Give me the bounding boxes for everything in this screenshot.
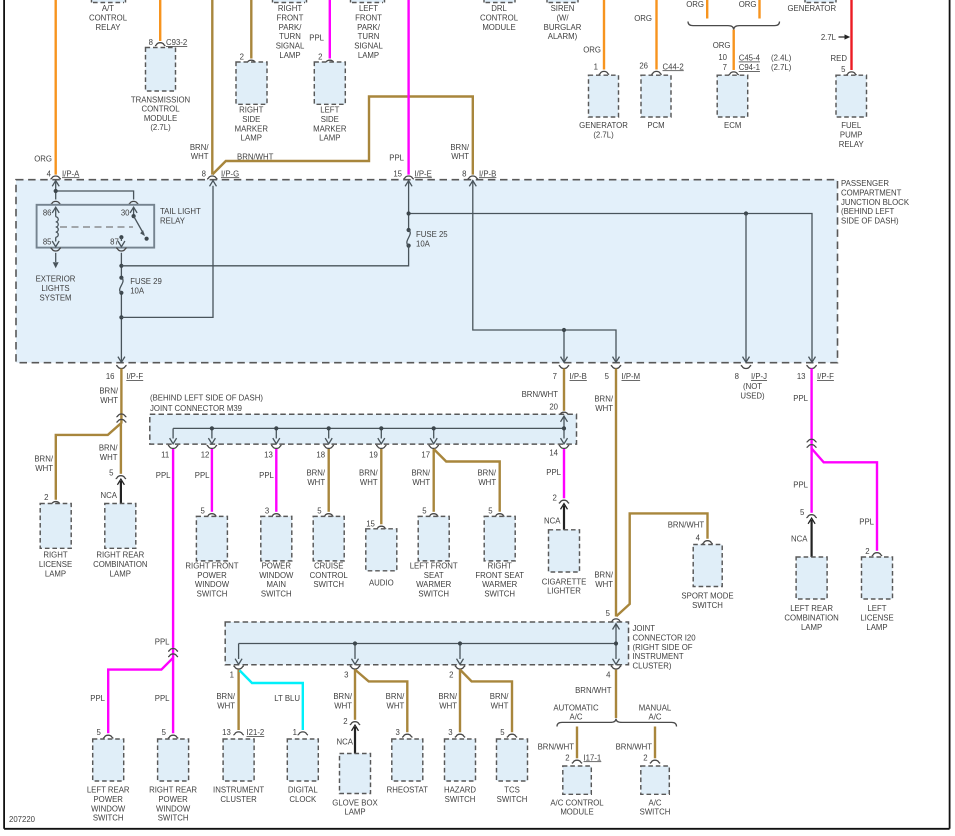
M39 internal bus bbox=[170, 416, 568, 444]
label SPORT MODE SWITCH bbox=[681, 592, 733, 610]
svg-text:WHT: WHT bbox=[451, 152, 469, 161]
svg-text:7: 7 bbox=[553, 372, 557, 381]
svg-text:5: 5 bbox=[317, 506, 322, 515]
svg-text:TRANSMISSION: TRANSMISSION bbox=[131, 95, 190, 104]
svg-text:4: 4 bbox=[606, 671, 611, 680]
svg-text:FRONT SEAT: FRONT SEAT bbox=[475, 571, 524, 580]
wire ORG to TCM C93-2 bbox=[159, 0, 161, 41]
svg-text:RELAY: RELAY bbox=[96, 23, 122, 32]
svg-text:SWITCH: SWITCH bbox=[93, 814, 124, 823]
svg-text:LAMP: LAMP bbox=[319, 134, 340, 143]
svg-text:JOINT CONNECTOR M39: JOINT CONNECTOR M39 bbox=[150, 404, 242, 413]
svg-text:LAMP: LAMP bbox=[241, 134, 262, 143]
svg-text:14: 14 bbox=[549, 448, 558, 457]
svg-text:(RIGHT SIDE OF: (RIGHT SIDE OF bbox=[633, 643, 693, 652]
svg-text:C93-2: C93-2 bbox=[166, 38, 187, 47]
wire BRN/WHT pin 2 branch to TCS switch bbox=[460, 670, 517, 738]
svg-text:RIGHT: RIGHT bbox=[488, 561, 512, 570]
pin 2 of right license lamp bbox=[44, 493, 61, 505]
svg-text:3: 3 bbox=[344, 671, 348, 680]
svg-text:11: 11 bbox=[161, 450, 169, 459]
label GLOVE BOX LAMP bbox=[332, 798, 378, 816]
cut-off box above A/T CONTROL RELAY bbox=[92, 0, 126, 3]
entry pin 20 of M39 bbox=[549, 403, 569, 416]
svg-text:(NOT: (NOT bbox=[743, 382, 762, 391]
svg-text:FRONT: FRONT bbox=[355, 13, 382, 22]
svg-text:I21-2: I21-2 bbox=[247, 728, 265, 737]
I20 internal bus bbox=[235, 624, 619, 665]
M39 exit pin 11 bbox=[161, 445, 178, 459]
right side marker lamp box bbox=[236, 62, 267, 104]
svg-text:BRN/: BRN/ bbox=[594, 571, 613, 580]
label RIGHT SIDE MARKER LAMP bbox=[235, 106, 269, 143]
inline connector on I/P-F wire bbox=[116, 414, 126, 422]
svg-text:MODULE: MODULE bbox=[144, 114, 177, 123]
svg-text:BRN/: BRN/ bbox=[477, 469, 496, 478]
svg-text:BRN/: BRN/ bbox=[306, 469, 325, 478]
svg-text:5: 5 bbox=[841, 65, 846, 74]
svg-text:FRONT: FRONT bbox=[277, 13, 304, 22]
svg-text:WHT: WHT bbox=[491, 701, 509, 710]
svg-text:I/P-A: I/P-A bbox=[62, 169, 80, 178]
inline connector on I/P-F 13 wire bbox=[807, 439, 817, 447]
svg-text:PPL: PPL bbox=[155, 694, 170, 703]
svg-text:A/C CONTROL: A/C CONTROL bbox=[550, 798, 604, 807]
2.7L arrow pointing at RED wire bbox=[821, 33, 850, 42]
svg-text:BRN/: BRN/ bbox=[386, 692, 405, 701]
TCS switch box bbox=[497, 739, 528, 781]
svg-text:2: 2 bbox=[565, 753, 569, 762]
wire RED to fuel pump relay bbox=[831, 0, 852, 70]
entry pin 5 of I20 bbox=[606, 609, 622, 622]
svg-text:C94-1: C94-1 bbox=[739, 63, 760, 72]
label PASSENGER COMPARTMENT JUNCTION BLOCK (BEHIND LEFT SIDE OF DASH) bbox=[841, 179, 910, 226]
label JOINT CONNECTOR I20 (RIGHT SIDE OF INSTRUMENT CLUSTER) bbox=[633, 624, 697, 671]
cut-off box above GENERATOR label bbox=[805, 0, 836, 3]
svg-text:18: 18 bbox=[316, 450, 325, 459]
svg-text:ECM: ECM bbox=[724, 121, 741, 130]
label LEFT REAR POWER WINDOW SWITCH bbox=[87, 786, 130, 823]
arrow to exterior lights system bbox=[36, 253, 76, 302]
svg-text:SWITCH: SWITCH bbox=[158, 814, 189, 823]
svg-text:CONNECTOR I20: CONNECTOR I20 bbox=[633, 633, 697, 642]
wire I/P-J branch bbox=[743, 211, 750, 362]
svg-text:POWER: POWER bbox=[158, 795, 188, 804]
brace splitting to automatic and manual A/C bbox=[557, 719, 677, 727]
svg-text:5: 5 bbox=[422, 506, 427, 515]
svg-text:ORG: ORG bbox=[686, 0, 704, 9]
svg-text:WHT: WHT bbox=[100, 453, 118, 462]
wire I/P-B to I/P-B 7 and I/P-M 5 bbox=[469, 180, 619, 362]
svg-text:5: 5 bbox=[162, 728, 167, 737]
svg-text:3: 3 bbox=[265, 506, 269, 515]
svg-text:C45-4: C45-4 bbox=[739, 54, 761, 63]
svg-text:I/P-F: I/P-F bbox=[126, 372, 143, 381]
svg-text:WHT: WHT bbox=[595, 404, 613, 413]
I20 exit pin 4 bbox=[606, 666, 621, 680]
svg-text:SIGNAL: SIGNAL bbox=[354, 42, 383, 51]
svg-text:BRN/: BRN/ bbox=[216, 692, 235, 701]
label DIGITAL CLOCK bbox=[288, 786, 318, 804]
wire fuse29 node to I/P-G bbox=[121, 181, 216, 318]
joint connector M39 box bbox=[150, 414, 577, 444]
svg-text:WHT: WHT bbox=[334, 701, 352, 710]
M39 exit pin 17 bbox=[421, 445, 438, 459]
wire BRN/WHT to right side marker lamp bbox=[250, 0, 252, 59]
label A/C CONTROL MODULE bbox=[550, 798, 604, 816]
svg-text:1: 1 bbox=[293, 728, 297, 737]
wire PPL pin 12 to right front power window switch bbox=[195, 449, 217, 517]
label MANUAL A/C bbox=[639, 704, 672, 722]
wire BRN/WHT to I/P-G bbox=[190, 0, 212, 175]
wire I/P-E to fuse 25 and right branch bbox=[405, 180, 815, 362]
label A/C SWITCH bbox=[640, 798, 671, 816]
svg-text:(2.4L): (2.4L) bbox=[771, 54, 792, 63]
svg-text:WHT: WHT bbox=[217, 701, 235, 710]
svg-text:POWER: POWER bbox=[93, 795, 123, 804]
sport mode switch box bbox=[693, 545, 722, 587]
svg-text:INSTRUMENT: INSTRUMENT bbox=[633, 652, 684, 661]
fuse 29 10A bbox=[119, 276, 162, 296]
wire BRN/WHT to A/C switch bbox=[616, 727, 661, 764]
svg-text:15: 15 bbox=[393, 169, 402, 178]
pin 5 of fuel pump relay bbox=[841, 65, 857, 75]
label POWER WINDOW MAIN SWITCH bbox=[259, 561, 294, 598]
svg-text:10A: 10A bbox=[130, 287, 145, 296]
svg-text:2: 2 bbox=[553, 493, 557, 502]
svg-text:2.7L: 2.7L bbox=[821, 33, 837, 42]
svg-text:5: 5 bbox=[606, 609, 611, 618]
wire ORG to ECM bbox=[713, 30, 734, 70]
svg-text:BRN/: BRN/ bbox=[190, 143, 209, 152]
entry 15 I/P-E bbox=[393, 169, 432, 179]
cut-off box above LEFT FRONT PARK lamp bbox=[351, 0, 385, 3]
svg-text:LEFT: LEFT bbox=[359, 4, 378, 13]
svg-text:ORG: ORG bbox=[634, 14, 652, 23]
svg-text:5: 5 bbox=[200, 506, 205, 515]
exit 8 I/P-J (NOT USED) bbox=[735, 365, 767, 400]
label AUTOMATIC A/C bbox=[553, 704, 599, 722]
svg-text:BRN/: BRN/ bbox=[99, 444, 118, 453]
label (BEHIND LEFT SIDE OF DASH) JOINT CONNECTOR M39 bbox=[150, 394, 263, 413]
svg-text:BRN/WHT: BRN/WHT bbox=[668, 521, 705, 530]
entry 8 I/P-G bbox=[202, 169, 240, 179]
label RHEOSTAT bbox=[387, 786, 429, 795]
svg-text:8: 8 bbox=[735, 372, 739, 381]
svg-text:16: 16 bbox=[106, 372, 115, 381]
wire BRN/WHT pin 2 to hazard switch bbox=[438, 670, 465, 738]
svg-text:I/P-B: I/P-B bbox=[479, 169, 496, 178]
svg-text:BRN/: BRN/ bbox=[438, 692, 457, 701]
svg-text:WHT: WHT bbox=[478, 478, 496, 487]
svg-text:10A: 10A bbox=[416, 240, 431, 249]
svg-text:MAIN: MAIN bbox=[267, 580, 287, 589]
svg-text:2: 2 bbox=[643, 753, 647, 762]
wire ORG to generator bbox=[583, 0, 604, 70]
audio box bbox=[366, 529, 397, 571]
svg-text:COMPARTMENT: COMPARTMENT bbox=[841, 188, 902, 197]
svg-text:A/C: A/C bbox=[649, 712, 662, 721]
svg-text:3: 3 bbox=[448, 728, 452, 737]
svg-text:AUDIO: AUDIO bbox=[369, 578, 394, 587]
wire PPL pin 11 down bbox=[155, 449, 173, 658]
label TRANSMISSION CONTROL MODULE (2.7L) bbox=[131, 95, 190, 132]
svg-text:(BEHIND LEFT: (BEHIND LEFT bbox=[841, 207, 895, 216]
label LEFT FRONT SEAT WARMER SWITCH bbox=[410, 561, 458, 598]
entry 4 I/P-A bbox=[47, 169, 80, 179]
svg-text:87: 87 bbox=[110, 237, 119, 246]
wire BRN/WHT pin 4 down to A/C brace bbox=[575, 670, 616, 718]
svg-text:2: 2 bbox=[865, 547, 869, 556]
M39 exit pin 13 bbox=[264, 445, 281, 459]
wire BRN/WHT pin 17 branch to right front seat warmer switch bbox=[434, 449, 505, 517]
svg-text:2: 2 bbox=[343, 717, 347, 726]
passenger compartment junction block bbox=[16, 180, 838, 363]
svg-text:RHEOSTAT: RHEOSTAT bbox=[387, 786, 429, 795]
cut-off box above SIREN bbox=[547, 0, 578, 3]
svg-text:5: 5 bbox=[605, 372, 610, 381]
diagram number 207220 bbox=[9, 815, 36, 824]
cut-off box above RIGHT FRONT PARK lamp bbox=[273, 0, 307, 3]
cut-off box above DRL CONTROL MODULE bbox=[484, 0, 515, 3]
hazard switch box bbox=[445, 739, 476, 781]
svg-text:CLUSTER): CLUSTER) bbox=[633, 662, 672, 671]
pins 10 C45-4 (2.4L) / 7 C94-1 (2.7L) of ECM bbox=[718, 53, 791, 75]
A/C switch box bbox=[641, 766, 670, 794]
svg-text:RIGHT: RIGHT bbox=[239, 106, 263, 115]
svg-text:LAMP: LAMP bbox=[866, 623, 887, 632]
svg-text:NCA: NCA bbox=[544, 517, 561, 526]
svg-text:LAMP: LAMP bbox=[110, 569, 131, 578]
left front seat warmer switch box bbox=[418, 516, 449, 561]
svg-text:CRUISE: CRUISE bbox=[314, 561, 343, 570]
label GENERATOR (2.7L) bbox=[579, 121, 628, 139]
svg-text:207220: 207220 bbox=[9, 815, 36, 824]
svg-text:RIGHT: RIGHT bbox=[43, 551, 67, 560]
exit 7 I/P-B bbox=[553, 365, 587, 381]
svg-text:RIGHT REAR: RIGHT REAR bbox=[149, 786, 197, 795]
svg-text:I17-1: I17-1 bbox=[584, 753, 602, 762]
label LEFT REAR COMBINATION LAMP bbox=[784, 604, 838, 632]
svg-text:PPL: PPL bbox=[155, 638, 170, 647]
wire ORG stub right above brace bbox=[739, 0, 760, 19]
wire BRN/WHT pin 3 to glove box lamp pin 2 bbox=[333, 670, 360, 726]
svg-text:BRN/: BRN/ bbox=[333, 692, 352, 701]
wire PPL to right rear power window switch bbox=[155, 658, 179, 739]
wire BRN/WHT pin 19 to audio bbox=[359, 449, 386, 529]
wire PPL split to left rear power window switch bbox=[90, 658, 173, 739]
svg-text:COMBINATION: COMBINATION bbox=[784, 613, 838, 622]
svg-text:WINDOW: WINDOW bbox=[91, 804, 126, 813]
pin 2 of left side marker lamp bbox=[318, 53, 335, 64]
pin 1 of generator bbox=[594, 62, 610, 74]
wire PPL from I/P-F 13 bbox=[793, 369, 811, 450]
svg-text:CONTROL: CONTROL bbox=[480, 13, 519, 22]
svg-text:COMBINATION: COMBINATION bbox=[93, 560, 147, 569]
svg-text:LAMP: LAMP bbox=[801, 623, 822, 632]
svg-text:BRN/WHT: BRN/WHT bbox=[575, 686, 612, 695]
svg-text:CIGARETTE: CIGARETTE bbox=[542, 577, 587, 586]
I20 exit pin 2 bbox=[449, 666, 465, 680]
svg-text:LEFT: LEFT bbox=[320, 106, 339, 115]
svg-text:(W/: (W/ bbox=[556, 13, 569, 22]
svg-text:BRN/WHT: BRN/WHT bbox=[538, 743, 575, 752]
svg-text:PPL: PPL bbox=[793, 481, 808, 490]
label LEFT FRONT PARK/TURN SIGNAL LAMP bbox=[354, 4, 383, 60]
wire PPL branch to left license lamp bbox=[812, 449, 883, 556]
svg-text:BRN/: BRN/ bbox=[594, 395, 613, 404]
PCM box bbox=[641, 75, 671, 117]
svg-text:LAMP: LAMP bbox=[344, 808, 365, 817]
label RIGHT FRONT PARK/TURN SIGNAL LAMP bbox=[276, 4, 305, 60]
label HAZARD SWITCH bbox=[444, 786, 476, 804]
tail light relay box bbox=[37, 201, 201, 247]
svg-text:(2.7L): (2.7L) bbox=[593, 131, 614, 140]
svg-text:PASSENGER: PASSENGER bbox=[841, 179, 889, 188]
svg-text:WHT: WHT bbox=[191, 152, 209, 161]
svg-text:SWITCH: SWITCH bbox=[261, 590, 292, 599]
M39 exit pin 18 bbox=[316, 445, 333, 459]
svg-text:PPL: PPL bbox=[793, 394, 808, 403]
svg-text:LAMP: LAMP bbox=[279, 51, 300, 60]
svg-text:USED): USED) bbox=[740, 391, 765, 400]
svg-text:26: 26 bbox=[639, 62, 648, 71]
joint connector I20 box bbox=[225, 622, 628, 665]
exit 13 I/P-F bbox=[797, 365, 834, 381]
svg-text:2: 2 bbox=[449, 671, 453, 680]
right rear combination lamp box bbox=[105, 504, 136, 549]
svg-text:10: 10 bbox=[718, 53, 727, 62]
svg-text:HAZARD: HAZARD bbox=[444, 786, 476, 795]
svg-text:(BEHIND LEFT SIDE OF DASH): (BEHIND LEFT SIDE OF DASH) bbox=[150, 394, 263, 403]
wire BRN/WHT pin 18 to cruise control switch bbox=[306, 449, 333, 517]
label INSTRUMENT CLUSTER bbox=[213, 786, 264, 804]
svg-text:30: 30 bbox=[121, 209, 130, 218]
I20 exit pin 3 bbox=[344, 666, 360, 680]
svg-text:SIREN: SIREN bbox=[551, 4, 575, 13]
relay terminal 86 with coil bbox=[43, 207, 59, 241]
wire BRN/WHT I/P-B 7 to M39 pin 20 bbox=[522, 369, 564, 411]
svg-text:I/P-F: I/P-F bbox=[817, 372, 834, 381]
digital clock box bbox=[287, 739, 318, 781]
wire BRN/WHT split to right license lamp bbox=[34, 423, 121, 500]
svg-text:WHT: WHT bbox=[387, 701, 405, 710]
svg-text:POWER: POWER bbox=[197, 571, 227, 580]
svg-text:BRN/: BRN/ bbox=[490, 692, 509, 701]
pin 2 of right side marker lamp bbox=[240, 53, 257, 64]
relay terminal 87 bbox=[110, 235, 125, 247]
svg-text:MARKER: MARKER bbox=[313, 124, 347, 133]
svg-text:ORG: ORG bbox=[583, 46, 601, 55]
svg-text:RIGHT REAR: RIGHT REAR bbox=[96, 551, 144, 560]
label RIGHT FRONT SEAT WARMER SWITCH bbox=[475, 561, 524, 598]
svg-text:WARMER: WARMER bbox=[416, 580, 452, 589]
svg-text:7: 7 bbox=[723, 63, 727, 72]
svg-text:ORG: ORG bbox=[739, 0, 757, 9]
relay terminal 30 with switch blade bbox=[121, 207, 149, 241]
svg-text:8: 8 bbox=[149, 38, 153, 47]
svg-text:RIGHT: RIGHT bbox=[278, 4, 302, 13]
wire BRN/WHT elbow I/P-G to I/P-B bbox=[213, 97, 473, 175]
svg-text:DIGITAL: DIGITAL bbox=[288, 786, 318, 795]
svg-text:19: 19 bbox=[369, 450, 378, 459]
svg-text:MODULE: MODULE bbox=[482, 23, 515, 32]
transmission control module box bbox=[146, 48, 176, 92]
svg-text:PPL: PPL bbox=[90, 694, 105, 703]
svg-text:BRN/WHT: BRN/WHT bbox=[237, 153, 274, 162]
inline pin 5 with NCA lead bbox=[101, 468, 127, 503]
svg-text:PPL: PPL bbox=[195, 471, 210, 480]
svg-text:SIGNAL: SIGNAL bbox=[276, 42, 305, 51]
svg-text:ORG: ORG bbox=[713, 41, 731, 50]
svg-text:WHT: WHT bbox=[595, 580, 613, 589]
wire BRN/WHT to pin 5 NCA bbox=[99, 423, 121, 474]
brace joining ORG stubs bbox=[688, 22, 780, 30]
label RIGHT REAR COMBINATION LAMP bbox=[93, 551, 147, 579]
svg-text:MODULE: MODULE bbox=[560, 808, 593, 817]
svg-text:BRN/: BRN/ bbox=[450, 143, 469, 152]
svg-text:LAMP: LAMP bbox=[358, 51, 379, 60]
svg-text:DRL: DRL bbox=[491, 4, 507, 13]
svg-text:MANUAL: MANUAL bbox=[639, 704, 672, 713]
label LEFT LICENSE LAMP bbox=[860, 604, 893, 632]
svg-text:BRN/: BRN/ bbox=[99, 386, 118, 395]
cruise control switch box bbox=[313, 516, 344, 561]
svg-text:LICENSE: LICENSE bbox=[39, 560, 72, 569]
label FUEL PUMP RELAY bbox=[839, 121, 865, 149]
label TCS SWITCH bbox=[497, 786, 528, 804]
svg-text:I/P-B: I/P-B bbox=[570, 372, 587, 381]
svg-text:BRN/: BRN/ bbox=[359, 469, 378, 478]
svg-text:NCA: NCA bbox=[791, 535, 808, 544]
svg-text:A/T: A/T bbox=[102, 4, 114, 13]
svg-text:PPL: PPL bbox=[859, 518, 874, 527]
wire PPL pin 14 to cigarette lighter bbox=[546, 449, 569, 503]
svg-text:A/C: A/C bbox=[570, 712, 583, 721]
label RIGHT FRONT POWER WINDOW SWITCH bbox=[185, 561, 238, 598]
label A/T CONTROL RELAY bbox=[89, 4, 128, 32]
svg-text:GENERATOR: GENERATOR bbox=[579, 121, 628, 130]
svg-text:3: 3 bbox=[396, 728, 400, 737]
wire BRN/WHT pin 17 to left front seat warmer switch bbox=[411, 449, 438, 517]
svg-text:AUTOMATIC: AUTOMATIC bbox=[553, 704, 599, 713]
right front seat warmer switch box bbox=[484, 516, 515, 561]
svg-text:FUEL: FUEL bbox=[841, 121, 862, 130]
svg-text:85: 85 bbox=[43, 237, 52, 246]
wire BRN/WHT from I/P-F 16 bbox=[99, 369, 121, 424]
svg-text:SWITCH: SWITCH bbox=[418, 590, 449, 599]
svg-text:WARMER: WARMER bbox=[482, 580, 518, 589]
wire I/P-A to relay terminals 86 and 30 bbox=[52, 180, 133, 199]
svg-text:5: 5 bbox=[800, 508, 805, 517]
svg-text:PPL: PPL bbox=[546, 468, 561, 477]
svg-text:8: 8 bbox=[202, 169, 206, 178]
NCA lead into glove box lamp bbox=[337, 725, 359, 753]
svg-text:SWITCH: SWITCH bbox=[313, 580, 344, 589]
svg-text:PPL: PPL bbox=[309, 34, 324, 43]
svg-text:JOINT: JOINT bbox=[633, 624, 656, 633]
svg-text:LICENSE: LICENSE bbox=[860, 613, 893, 622]
svg-text:SPORT MODE: SPORT MODE bbox=[681, 592, 733, 601]
svg-text:86: 86 bbox=[43, 209, 52, 218]
inline connector on pin 11 PPL wire bbox=[168, 649, 178, 657]
svg-text:PCM: PCM bbox=[647, 121, 664, 130]
svg-text:WINDOW: WINDOW bbox=[259, 571, 294, 580]
svg-text:BRN/WHT: BRN/WHT bbox=[522, 390, 559, 399]
svg-text:LEFT REAR: LEFT REAR bbox=[87, 786, 130, 795]
svg-text:SWITCH: SWITCH bbox=[197, 590, 228, 599]
svg-text:I/P-J: I/P-J bbox=[751, 372, 767, 381]
